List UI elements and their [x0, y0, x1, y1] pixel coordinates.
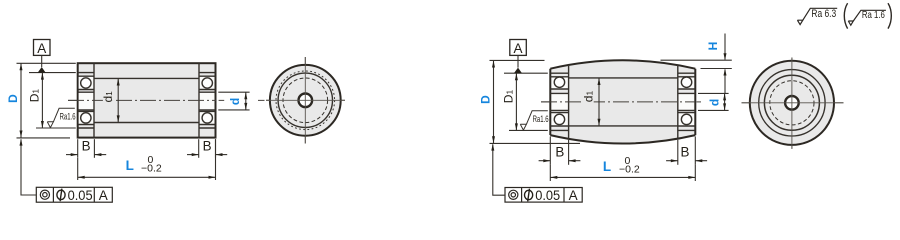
bearing strip vertical right — [198, 63, 200, 137]
dimension d1 left — [117, 79, 119, 123]
svg-text:D1: D1 — [501, 90, 515, 104]
svg-text:−0.2: −0.2 — [141, 163, 162, 175]
svg-text:B: B — [555, 145, 564, 160]
bearing balls right roller — [554, 77, 692, 125]
dimension B left pair — [66, 139, 106, 158]
svg-text:B: B — [681, 145, 690, 160]
end face circle right — [759, 70, 825, 136]
svg-text:L: L — [126, 158, 134, 173]
end view hidden d1 circle left — [283, 78, 328, 123]
surface symbol Ra 6.3 — [797, 8, 837, 24]
d1 bore top line — [94, 77, 199, 79]
centerline left roller — [68, 99, 216, 101]
svg-text:B: B — [203, 138, 212, 153]
redraw centerline right — [541, 101, 695, 103]
end view bearing OD circle left — [278, 73, 332, 127]
dimension H right — [661, 34, 732, 94]
svg-text:H: H — [706, 42, 720, 51]
svg-text:A: A — [99, 188, 108, 203]
datum A box right — [510, 40, 527, 74]
hidden d1 circle right — [770, 81, 814, 125]
dimension D right — [490, 60, 581, 143]
redraw crosshair right — [742, 58, 844, 149]
svg-text:Ra 1.6: Ra 1.6 — [862, 10, 885, 21]
bearing box lines left strip — [550, 73, 568, 130]
svg-text:d1: d1 — [101, 91, 115, 103]
strip vertical left — [568, 65, 570, 139]
end view crosshair right — [742, 58, 844, 149]
dimension d left — [218, 92, 249, 110]
surface symbol Ra1.6 right — [520, 111, 548, 130]
svg-text:Ra1.6: Ra1.6 — [533, 114, 549, 125]
label d1 — [103, 87, 113, 107]
bearing box lines right strip — [199, 73, 216, 128]
bearing box lines left strip — [78, 73, 94, 128]
tolerance frame left — [36, 187, 112, 202]
end view bore circle left — [299, 94, 313, 108]
end view crosshair left — [266, 57, 345, 144]
bearing bore white bands right — [551, 77, 695, 126]
svg-text:B: B — [82, 138, 91, 153]
dimension D1 left — [29, 73, 76, 128]
redraw centerline over part — [68, 99, 216, 101]
parenthesis open — [844, 3, 847, 28]
svg-text:Ra 6.3: Ra 6.3 — [811, 8, 836, 20]
d1 bore lines — [569, 77, 678, 79]
crown arcs right — [550, 60, 695, 143]
svg-text:Ra1.6: Ra1.6 — [60, 112, 76, 123]
bearing bore white bands — [79, 76, 215, 124]
d1 bore bottom line — [94, 122, 199, 124]
label d right — [709, 98, 719, 108]
dimension d1 right — [598, 78, 600, 126]
phi symbol left frame — [57, 189, 65, 202]
svg-text:d: d — [228, 98, 242, 105]
inner lines right roller — [550, 65, 695, 139]
end view disk left — [270, 65, 341, 136]
svg-text:D: D — [478, 95, 492, 104]
bearing strip vertical left — [93, 63, 95, 137]
crowned roller body right — [550, 60, 695, 143]
end view disk right — [750, 61, 834, 145]
bearing box lines right strip — [678, 73, 696, 130]
inner lines left roller — [78, 63, 216, 137]
dimension L right — [550, 165, 695, 181]
svg-text:0.05: 0.05 — [68, 188, 93, 203]
surface symbol Ra 1.6 — [848, 10, 886, 25]
dimension B right-right pair — [666, 137, 707, 165]
redraw crosshair over disk left — [266, 57, 345, 144]
bearing OD circle right — [764, 75, 819, 130]
surface symbol Ra1.6 left — [47, 108, 75, 127]
leader from frame to D extension — [21, 139, 36, 195]
svg-text:0.05: 0.05 — [535, 188, 560, 203]
strip vertical right — [677, 65, 679, 139]
label d1 right — [584, 87, 594, 107]
leader from frame to D extension right — [493, 144, 505, 195]
svg-text:D1: D1 — [27, 89, 41, 103]
svg-text:L: L — [603, 159, 611, 174]
dimension B right-left pair — [539, 137, 581, 165]
centerline right roller — [541, 101, 695, 103]
bearing balls left roller — [81, 78, 213, 123]
end view fine dashed circle left — [276, 71, 335, 130]
roller body left — [78, 63, 216, 137]
svg-text:d: d — [707, 99, 721, 106]
dimension D left — [17, 63, 76, 138]
dimension L left — [78, 139, 216, 180]
svg-text:A: A — [37, 41, 46, 56]
datum A box left — [34, 40, 51, 73]
svg-text:A: A — [513, 41, 522, 56]
dimension B right pair — [187, 139, 227, 158]
svg-text:D: D — [6, 94, 20, 103]
phi symbol right frame — [525, 189, 533, 202]
dimension D1 right — [504, 73, 548, 130]
svg-text:−0.2: −0.2 — [619, 164, 640, 176]
parenthesis close — [888, 3, 891, 28]
bore circle right — [785, 96, 799, 110]
svg-text:d1: d1 — [582, 91, 596, 103]
dimension d right — [698, 93, 729, 110]
svg-text:A: A — [569, 188, 578, 203]
label d — [230, 97, 240, 106]
tolerance frame right — [505, 188, 582, 203]
